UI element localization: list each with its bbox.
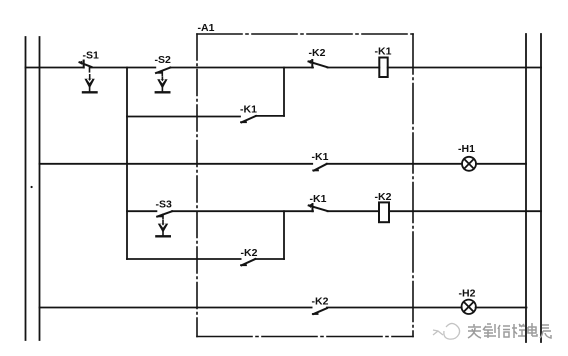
wire: row4b from node A to K2 aux contact <box>127 258 241 260</box>
wire: row4 from K2 coil to right rail <box>390 210 542 212</box>
wire: row1 from S1 to S2 (passes node at x=127) <box>90 67 155 69</box>
relay contact -K1 NO (row3, lamp H1 drive) <box>313 164 327 171</box>
indicator lamp -H2 <box>462 300 476 314</box>
relay coil -K2 <box>379 202 389 222</box>
char Xin <box>498 325 510 338</box>
svg-text:-K2: -K2 <box>309 47 326 59</box>
pushbutton -S2 (NO make contact with pull actuator) <box>156 68 171 93</box>
wire: riser x=284 row4b up to row4 <box>283 211 285 259</box>
wire: row3 from lamp H1 to right rail <box>476 163 526 165</box>
svg-text:-K2: -K2 <box>241 247 258 259</box>
svg-text:-K1: -K1 <box>240 104 257 116</box>
left power rail (outer) <box>25 37 27 340</box>
enclosure -A1 top edge (chain line) <box>197 33 413 35</box>
svg-text:-H1: -H1 <box>458 143 475 155</box>
relay contact -K2 NO (row5, lamp H2 drive) <box>313 308 327 314</box>
wire: row2 from K1 aux contact to riser <box>256 115 284 117</box>
svg-text:-H2: -H2 <box>459 288 476 300</box>
svg-text:-K2: -K2 <box>312 296 329 308</box>
indicator lamp -H1 <box>462 157 476 171</box>
enclosure -A1 right edge (chain line) <box>412 34 414 337</box>
pushbutton -S3 (NO make contact with pull actuator) <box>156 211 172 236</box>
relay coil -K1 <box>379 58 387 78</box>
svg-text:-K1: -K1 <box>310 193 327 205</box>
char An <box>468 324 481 338</box>
svg-text:-S3: -S3 <box>156 199 173 211</box>
relay contact -K1 NC (interlock, row4) <box>308 204 328 211</box>
left power rail (inner) <box>39 37 41 340</box>
wire: vertical branch node A (x=127) row1 down to row4b <box>126 68 128 260</box>
watermark logo swoosh <box>433 323 460 339</box>
relay contact -K2 NC (interlock, row1) <box>308 60 328 68</box>
wire: row4 from S3 to K1 interlock contact <box>172 210 313 212</box>
wire: row5 from lamp H2 to right rail <box>476 307 527 309</box>
wire: row1 from S2 to K2 contact (passes node at x=284) <box>170 67 313 69</box>
wire: row5 from K2 contact to lamp H2 <box>327 307 462 309</box>
char Hui <box>483 324 496 338</box>
char Dian <box>528 323 537 336</box>
wire: row3 from left rail to K1 contact <box>40 163 313 165</box>
right power rail (inner) <box>525 34 527 342</box>
wire: row4 from K1 interlock contact to K2 coil <box>328 210 380 212</box>
svg-text:-S2: -S2 <box>155 54 172 66</box>
wire: row5 from left rail to K2 contact <box>40 307 312 309</box>
wire: row2 from node A to K1 aux contact <box>127 116 240 118</box>
enclosure -A1 left edge (chain line) <box>196 34 198 337</box>
wire: row1 from K2 contact to K1 coil <box>328 67 380 69</box>
watermark text (hand-drawn CJK strokes) <box>468 323 551 338</box>
right power rail (outer) <box>540 34 542 342</box>
svg-text:-K1: -K1 <box>312 151 329 163</box>
relay contact -K1 NO (self hold, row2) <box>241 116 256 122</box>
wire: row1 from K1 coil to right rail <box>388 67 541 69</box>
stray ink dot on left rail area <box>31 186 33 188</box>
wire: row1 from left rail to S1 <box>26 67 84 69</box>
wire: row3 from K1 contact to lamp H1 <box>327 163 462 165</box>
wire: row4 from node A to S3 <box>127 210 156 212</box>
svg-text:-K2: -K2 <box>375 191 392 203</box>
relay contact -K2 NO (self hold, row4b) <box>241 259 255 265</box>
char Qi <box>540 325 551 338</box>
svg-text:-A1: -A1 <box>198 22 215 34</box>
char Kong <box>512 324 525 338</box>
enclosure -A1 bottom edge (chain line) <box>197 336 413 338</box>
svg-text:-K1: -K1 <box>375 46 392 58</box>
wire: row4b from K2 aux contact to riser <box>255 258 284 260</box>
svg-text:-S1: -S1 <box>83 50 100 62</box>
pushbutton -S1 (NC break contact with pull actuator) <box>79 61 97 93</box>
wire: riser x=284 row2 up to row1 <box>283 68 285 116</box>
